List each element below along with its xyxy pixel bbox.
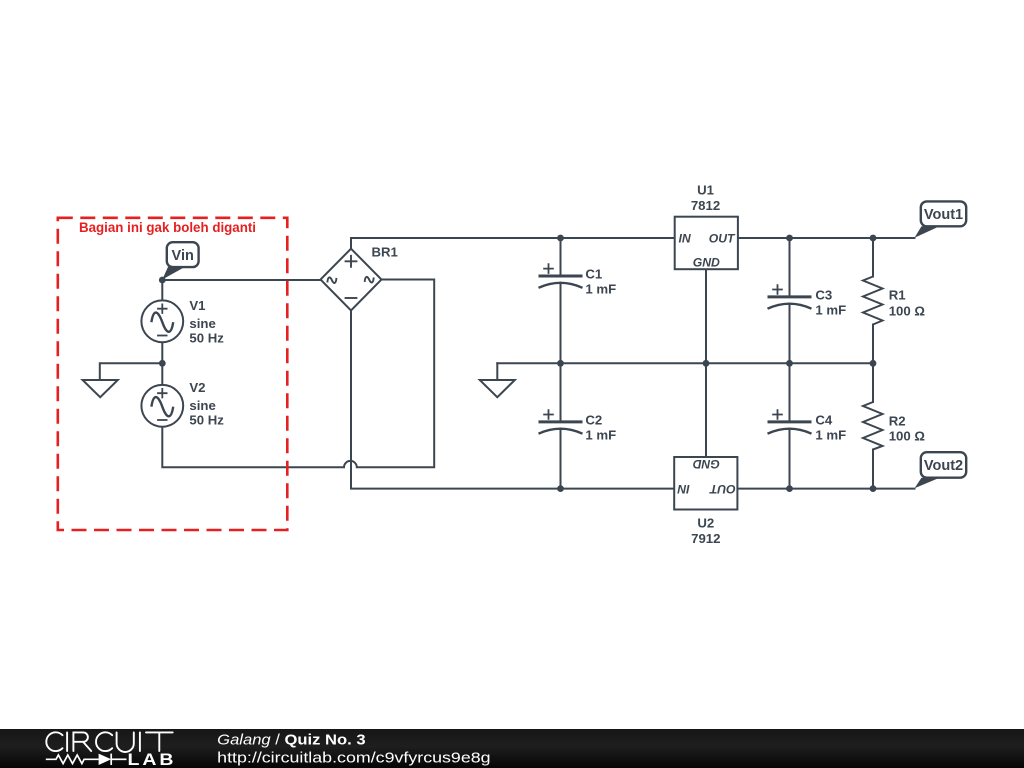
node C4 bottom	[786, 485, 793, 492]
node V1-V2 midpoint	[159, 360, 166, 367]
svg-text:R1: R1	[889, 287, 906, 302]
wire R1 branch	[872, 238, 874, 363]
wire V2 bottom loop with hop over BR1 minus wire, up to BR1 right AC pin	[162, 280, 434, 468]
svg-text:C1: C1	[585, 267, 602, 282]
svg-text:C3: C3	[815, 288, 832, 303]
svg-text:U1: U1	[697, 182, 714, 197]
svg-text:BR1: BR1	[372, 245, 398, 260]
node C3 top	[786, 235, 793, 242]
annotation red dashed box	[58, 218, 287, 530]
svg-text:V1: V1	[189, 298, 205, 313]
svg-text:Galang / Quiz No. 3: Galang / Quiz No. 3	[217, 732, 365, 749]
node R1 top	[870, 235, 877, 242]
svg-text:OUT: OUT	[709, 232, 736, 246]
ground G2	[480, 380, 515, 397]
svg-text:IN: IN	[679, 232, 692, 246]
ground G1	[83, 380, 118, 397]
capacitor C4	[768, 409, 812, 434]
voltage source V1	[141, 300, 183, 342]
wire BR1 plus pin up and top rail to Vout1	[351, 238, 915, 249]
wire ground2 stub	[496, 363, 498, 380]
svg-text:50 Hz: 50 Hz	[189, 413, 224, 428]
svg-text:C2: C2	[585, 413, 602, 428]
logo resistor-diode art	[46, 754, 127, 765]
svg-text:LAB: LAB	[128, 751, 177, 768]
node flag Vout1	[915, 201, 967, 237]
node R1-R2 mid	[870, 360, 877, 367]
svg-text:IN: IN	[676, 482, 689, 496]
svg-text:1 mF: 1 mF	[815, 302, 846, 317]
wire Vin to BR1 left AC pin	[162, 279, 320, 281]
resistor R1	[863, 277, 883, 325]
svg-text:Vout2: Vout2	[924, 458, 963, 474]
svg-text:GND: GND	[693, 255, 720, 269]
node U1-U2 gnd	[703, 360, 710, 367]
wire C3 C4 branch	[789, 238, 791, 489]
svg-text:100 Ω: 100 Ω	[889, 304, 926, 319]
svg-text:7912: 7912	[691, 531, 720, 546]
svg-text:C4: C4	[815, 413, 833, 428]
svg-text:OUT: OUT	[708, 482, 735, 496]
node flag Vout2	[915, 452, 967, 488]
capacitor C1	[539, 263, 583, 288]
regulator U2 box (rotated 180)	[674, 457, 737, 510]
svg-text:V2: V2	[189, 380, 205, 395]
svg-text:Bagian ini gak boleh diganti: Bagian ini gak boleh diganti	[79, 220, 256, 235]
svg-text:Vout1: Vout1	[924, 207, 963, 223]
wire C1 C2 branch	[560, 238, 562, 489]
node C3-C4 mid	[786, 360, 793, 367]
junction node dots	[159, 235, 876, 492]
svg-text:U2: U2	[697, 516, 714, 531]
svg-text:1 mF: 1 mF	[585, 282, 616, 297]
svg-text:100 Ω: 100 Ω	[889, 429, 926, 444]
svg-text:http://circuitlab.com/c9vfyrcu: http://circuitlab.com/c9vfyrcus9e8g	[217, 749, 490, 766]
svg-text:50 Hz: 50 Hz	[189, 331, 224, 346]
node C1 top	[557, 235, 564, 242]
svg-text:sine: sine	[189, 398, 215, 413]
wire middle ground rail	[497, 362, 873, 364]
svg-text:GND: GND	[693, 457, 720, 471]
node R2 bottom	[870, 485, 877, 492]
wire U2 GND pin	[705, 363, 707, 457]
node flag Vin	[162, 242, 198, 279]
resistor R2	[863, 402, 883, 450]
svg-text:Vin: Vin	[172, 248, 194, 264]
bridge rectifier BR1	[321, 249, 382, 311]
svg-text:7812: 7812	[691, 198, 720, 213]
wire V1 top pin	[161, 280, 163, 301]
voltage source V2	[141, 385, 183, 427]
wire R2 branch	[872, 363, 874, 488]
logo CIRCUIT letters	[46, 732, 172, 752]
svg-text:1 mF: 1 mF	[585, 427, 616, 442]
capacitor C3	[768, 284, 812, 309]
wire mid junction to V2 top	[161, 363, 163, 385]
capacitor C2	[539, 409, 583, 434]
wire V1 bottom to mid junction	[161, 342, 163, 363]
node C2 bottom	[557, 485, 564, 492]
svg-text:R2: R2	[889, 413, 906, 428]
wire U1 GND pin	[705, 269, 707, 363]
node C1-C2 mid	[557, 360, 564, 367]
wire ground1 stub	[100, 363, 163, 380]
svg-text:1 mF: 1 mF	[815, 427, 846, 442]
node Vin junction	[159, 277, 166, 284]
svg-text:sine: sine	[189, 316, 215, 331]
wire BR1 minus pin down and bottom rail to Vout2	[351, 311, 915, 489]
regulator U1 box	[675, 217, 738, 270]
